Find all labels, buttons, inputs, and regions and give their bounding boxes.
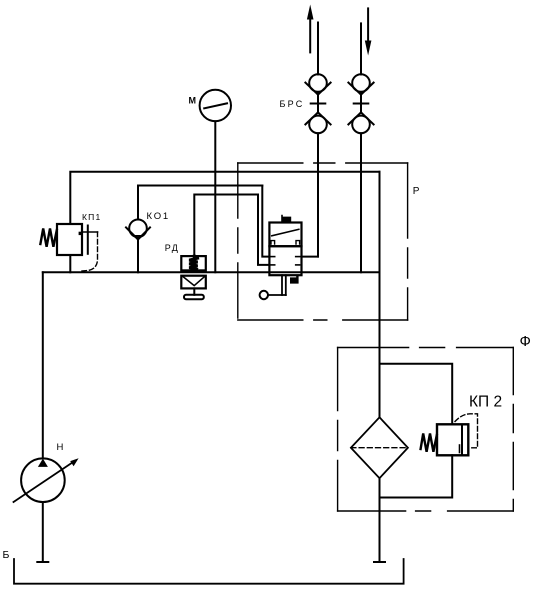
svg-text:Ф: Ф: [520, 333, 531, 350]
wire: valve P right port to left coupling line: [302, 256, 319, 258]
up arrow (flow out): [307, 5, 314, 53]
wire: КП1 outlet to manifold: [69, 255, 71, 272]
drain port circle: [260, 291, 268, 299]
wire: bus1 top pressure line: [70, 172, 379, 224]
valve diagonal: [272, 229, 299, 236]
manometer М: [200, 90, 231, 121]
tank tick return: [374, 561, 385, 563]
closed port mark right: [296, 241, 300, 244]
wire: pump suction down to tank: [42, 502, 44, 562]
pressure switch РД: [181, 256, 206, 299]
quick coupling БРС left: [305, 74, 330, 133]
wire: manometer line down to manifold: [214, 121, 216, 272]
closed port mark left: [271, 241, 275, 244]
svg-text:КО1: КО1: [147, 211, 171, 222]
wire: right coupling pipe (top stub): [360, 23, 362, 74]
P box (dashed enclosure): [238, 163, 408, 320]
wire: КО1 top to bus2: [138, 186, 262, 220]
tank Б: [14, 559, 404, 584]
quick coupling БРС right: [348, 74, 373, 133]
РД stem and plate: [193, 288, 195, 294]
svg-text:Р: Р: [413, 186, 420, 197]
tank tick suction: [37, 561, 48, 563]
solenoid flag bottom: [290, 275, 299, 283]
wire: filter bypass (top run and КП2 feed): [380, 364, 453, 425]
svg-text:РД: РД: [165, 243, 180, 253]
control valve Р (upper position box): [269, 215, 301, 246]
wire: left coupling pipe down to valve P right port: [317, 133, 319, 256]
wire: КО1 bottom to manifold: [137, 239, 139, 272]
wire: bus3 РД to valve P left lower port: [194, 195, 269, 265]
solenoid flag top: [281, 215, 291, 223]
valve P drain channel: [268, 275, 286, 295]
manifold (main pressure line): [43, 271, 380, 273]
svg-text:М: М: [189, 96, 197, 106]
wire: return riser from bus1 down through P box to filter: [379, 172, 381, 417]
control valve Р (lower position box): [269, 246, 301, 283]
port stubs: [269, 256, 274, 258]
pilot line КП2 (dashed): [455, 414, 478, 448]
wire: manifold left corner down to pump: [42, 272, 44, 458]
pump Н: [14, 458, 79, 502]
wire: right coupling pipe down to manifold: [360, 133, 362, 272]
wire: bus2 down to valve P left upper port: [262, 186, 269, 257]
check valve КО1: [126, 220, 150, 240]
svg-text:БРС: БРС: [280, 99, 305, 109]
wire: bypass bottom run: [380, 455, 453, 497]
svg-text:Б: Б: [3, 549, 10, 561]
РД spring (contact): [189, 256, 197, 269]
svg-text:Н: Н: [57, 442, 64, 453]
РД diaphragm V: [183, 277, 205, 286]
pilot line КП1 (dashed): [80, 232, 98, 271]
down arrow (flow in): [365, 8, 372, 55]
Ф box (dashed enclosure): [338, 348, 514, 512]
relief valve КП2: [421, 414, 478, 456]
svg-text:КП 2: КП 2: [469, 394, 502, 411]
relief valve КП1: [40, 224, 97, 271]
svg-text:КП1: КП1: [82, 212, 101, 222]
filter element Ф: [351, 417, 408, 478]
spring КП1: [40, 229, 56, 247]
wire: return line below filter to tank: [379, 478, 381, 562]
wire: left coupling pipe (top stub): [317, 23, 319, 75]
spring КП2: [421, 434, 437, 452]
